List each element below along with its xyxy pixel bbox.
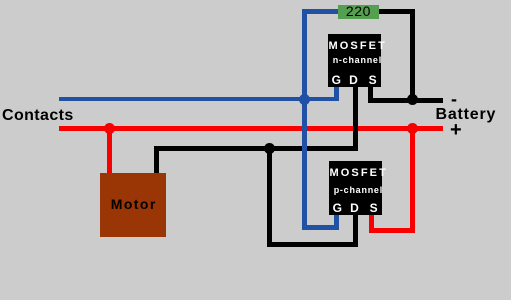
label: Contacts: [2, 108, 74, 124]
label: minus: [451, 90, 457, 108]
wire: red vertical right: [410, 128, 415, 233]
MOSFET U1 n-channel: [328, 34, 381, 88]
resistor R 220: [338, 5, 379, 19]
MOSFET U2 p-channel: [329, 161, 382, 215]
wire: blue top connector to resistor: [302, 9, 339, 14]
wire: blue bottom connector: [302, 225, 340, 230]
wire: red main horizontal Contacts-Battery+: [59, 126, 443, 131]
wire: black D pin stub n-channel: [353, 87, 358, 151]
node: red junction left: [104, 123, 115, 134]
wire: blue G pin stub n-channel: [334, 87, 339, 101]
wire: blue main vertical: [302, 9, 307, 230]
wire: black horizontal to Battery-: [368, 98, 443, 103]
wire: red vertical to Motor: [107, 128, 112, 173]
node: blue junction: [299, 94, 310, 105]
wire: black vertical mid-low: [267, 146, 272, 247]
node: red junction right: [407, 123, 418, 134]
wire: black bottom horizontal: [267, 242, 359, 247]
wire: black S pin stub n-channel: [368, 87, 373, 103]
wire: black middle horizontal: [154, 146, 358, 151]
wire: red bottom horizontal: [369, 228, 415, 233]
wire: black resistor right to corner: [379, 9, 415, 14]
wire: red S pin stub p-channel: [369, 215, 374, 233]
label: Battery: [436, 107, 497, 123]
Motor M1: [100, 173, 166, 237]
node: black junction middle: [264, 143, 275, 154]
wire: black vertical from resistor: [410, 9, 415, 103]
wire: black D pin stub p-channel: [353, 215, 358, 247]
wire: blue Contacts upper horizontal: [59, 97, 338, 102]
wire: black Motor right stub: [154, 146, 159, 173]
label: plus: [450, 120, 462, 140]
wire: blue G pin stub p-channel: [334, 215, 339, 230]
node: black junction battery: [407, 94, 418, 105]
